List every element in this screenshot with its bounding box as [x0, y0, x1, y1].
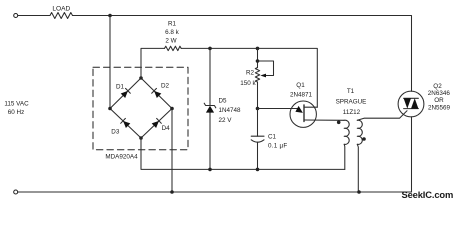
node AC2 / bottom rail — [170, 190, 174, 194]
transformer T1 primary winding — [344, 120, 349, 144]
svg-text:150 k: 150 k — [240, 80, 256, 87]
diode D2 — [152, 88, 162, 98]
node common / D5 — [208, 168, 212, 172]
node bridge right vertex — [170, 107, 174, 111]
wire AC input 1 to bridge — [109, 16, 111, 109]
svg-text:2N4871: 2N4871 — [290, 92, 313, 99]
wire bottom rail — [18, 191, 412, 193]
diode D1 — [121, 88, 131, 98]
node R1 rail / D5 — [208, 47, 212, 51]
Q1 base2 lead — [304, 106, 317, 108]
wire R1 rail to Q1 base2 — [181, 48, 317, 107]
svg-text:SeekIC.com: SeekIC.com — [402, 189, 454, 200]
T1 primary bottom lead — [343, 144, 346, 169]
diode D4 — [152, 118, 162, 128]
node bridge left vertex — [108, 107, 112, 111]
wire emitter to Q1 — [258, 108, 300, 110]
zener diode D5 — [204, 103, 216, 112]
Q1 base bar — [303, 105, 305, 122]
svg-text:2 W: 2 W — [165, 37, 176, 44]
capacitor C1 — [251, 136, 264, 142]
svg-text:R1: R1 — [168, 20, 177, 27]
T1 secondary bottom lead — [357, 144, 358, 192]
svg-text:MDA920A4: MDA920A4 — [105, 153, 138, 160]
wire D5 branch lower — [209, 113, 211, 170]
transistor Q1 circle — [290, 101, 316, 127]
wire D5 branch upper — [209, 48, 211, 104]
svg-text:D3: D3 — [111, 129, 120, 136]
bridge diamond wires — [110, 78, 172, 138]
resistor R1 — [165, 46, 182, 50]
wire top rail right — [73, 16, 412, 92]
triac Q2 circle — [398, 91, 424, 117]
wire right rail lower — [411, 117, 413, 192]
resistor LOAD — [50, 13, 73, 19]
svg-text:6.8 k: 6.8 k — [165, 29, 180, 36]
wire gate to triac — [357, 111, 407, 121]
node T1 secondary / bottom rail — [357, 190, 361, 194]
triac top bar — [404, 97, 419, 99]
terminal bottom-left — [14, 190, 18, 194]
node R2 wiper tie — [256, 59, 260, 63]
wire common line — [141, 138, 345, 169]
dashed module box MDA920A4 — [93, 67, 188, 149]
T1 secondary phasing dot — [362, 137, 366, 141]
svg-text:1N4748: 1N4748 — [219, 107, 242, 114]
R2 wiper arrow — [260, 74, 266, 78]
svg-text:0.1 µF: 0.1 µF — [268, 143, 287, 150]
svg-text:60 Hz: 60 Hz — [8, 109, 24, 116]
svg-text:LOAD: LOAD — [52, 6, 70, 13]
svg-text:2N6346: 2N6346 — [428, 90, 451, 97]
svg-text:D2: D2 — [161, 82, 170, 89]
T1 primary phasing dot — [337, 121, 341, 125]
wire R2 top — [257, 48, 259, 67]
wire C1 to common — [257, 142, 259, 169]
wire AC input 2 — [171, 109, 173, 193]
svg-text:D5: D5 — [219, 98, 228, 105]
svg-text:C1: C1 — [268, 133, 277, 140]
svg-text:11Z12: 11Z12 — [343, 109, 361, 116]
svg-text:22 V: 22 V — [219, 117, 233, 124]
svg-text:115 VAC: 115 VAC — [4, 100, 29, 107]
svg-text:R2: R2 — [246, 70, 255, 77]
svg-text:OR: OR — [434, 97, 444, 104]
wire R2 bottom to node — [257, 82, 259, 109]
resistor R2 — [255, 68, 259, 83]
svg-text:Q1: Q1 — [296, 82, 305, 89]
svg-text:2N5569: 2N5569 — [428, 105, 451, 112]
svg-text:SPRAGUE: SPRAGUE — [336, 99, 367, 106]
Q1 base1 lead — [304, 119, 344, 121]
wire node to C1 — [257, 109, 259, 137]
wire R2 wiper loop — [258, 61, 274, 76]
node bridge bottom vertex — [139, 136, 143, 140]
triac bottom bar — [404, 108, 419, 110]
svg-text:T1: T1 — [347, 88, 355, 95]
svg-text:Q2: Q2 — [433, 83, 442, 90]
wire top rail left — [18, 15, 50, 17]
node emitter branch — [256, 107, 260, 111]
Q1 emitter arrow — [295, 106, 303, 113]
svg-text:D1: D1 — [116, 83, 125, 90]
terminal top-left — [14, 14, 18, 18]
triac left triangle — [404, 98, 411, 108]
node R1 rail / R2 — [256, 47, 260, 51]
node junction top rail — [108, 14, 112, 18]
svg-text:D4: D4 — [162, 125, 171, 132]
node bridge top vertex — [139, 76, 143, 80]
wire bridge plus to R1 rail — [141, 48, 165, 78]
transformer T1 secondary winding — [357, 120, 362, 144]
diode D3 — [121, 118, 131, 128]
triac right triangle — [411, 98, 418, 108]
node common / C1 — [256, 168, 260, 172]
